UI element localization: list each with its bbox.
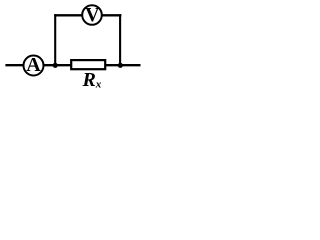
wire: right vertical branch [119, 14, 121, 65]
svg-text:R: R [82, 69, 96, 91]
wire: top horizontal branch [54, 14, 121, 16]
wire: left vertical branch [54, 14, 56, 65]
node: junction dot right [118, 63, 123, 68]
wire: main horizontal bottom wire [5, 64, 140, 66]
svg-text:x: x [95, 79, 102, 91]
svg-text:A: A [26, 54, 41, 76]
node: junction dot left [53, 63, 58, 68]
resistor Rx (box) [71, 60, 105, 69]
voltmeter V [82, 4, 102, 26]
ammeter A [24, 54, 44, 76]
svg-text:V: V [85, 4, 100, 26]
